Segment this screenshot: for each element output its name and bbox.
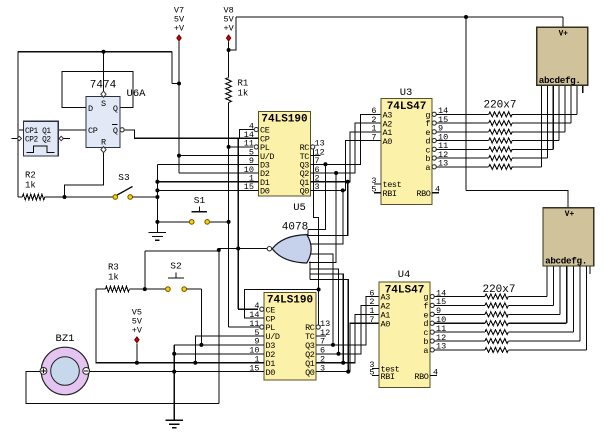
- node junction: [341, 361, 345, 365]
- svg-text:R2: R2: [25, 171, 36, 181]
- node junction: [227, 48, 231, 52]
- wire D3 row top counter: [157, 163, 258, 165]
- wire Q3 to U3 A3: [311, 114, 382, 164]
- wire Q1 to U3 A1: [311, 132, 382, 182]
- wire buzzer leg: [218, 251, 220, 404]
- wire S2 right leg: [200, 289, 202, 345]
- switch S1: [189, 195, 209, 224]
- svg-text:U4: U4: [398, 269, 411, 281]
- buzzer BZ1: [40, 333, 90, 395]
- power source V7 5V: [174, 6, 185, 41]
- wire U3 segment e via 220x7 to display1: [437, 85, 565, 134]
- wire V7 stem: [178, 42, 180, 174]
- node junction: [331, 343, 335, 347]
- node junction: [227, 220, 231, 224]
- wire: [229, 17, 236, 50]
- wire gate out to counters enable: [237, 138, 239, 309]
- svg-text:a: a: [423, 346, 428, 356]
- svg-text:+V: +V: [132, 325, 143, 335]
- wire U3 segment a via 220x7 to display1: [437, 85, 542, 169]
- resistor R3 1k: [105, 263, 129, 292]
- node junction: [63, 195, 67, 199]
- svg-text:Q0: Q0: [300, 187, 310, 197]
- svg-text:7474: 7474: [90, 80, 117, 92]
- svg-text:RBI: RBI: [383, 189, 397, 199]
- wire U4 segment c via 220x7 to display2: [435, 266, 573, 335]
- svg-text:abcdefg.: abcdefg.: [545, 256, 587, 267]
- wire U/D bottom from V5 rail: [195, 336, 264, 363]
- wire CE hook top counter: [239, 130, 254, 139]
- wire output to R3 node: [144, 251, 146, 289]
- display DS1 (top 7-segment): [537, 27, 588, 86]
- svg-text:+V: +V: [223, 24, 234, 34]
- wire PL row top counter: [229, 146, 253, 148]
- svg-text:R1: R1: [238, 79, 249, 89]
- svg-text:220x7: 220x7: [483, 100, 516, 112]
- wire V5 rail / D1 row: [96, 289, 264, 363]
- wire U4 segment d via 220x7 to display2: [435, 266, 567, 326]
- svg-text:D0: D0: [260, 187, 270, 197]
- svg-text:S1: S1: [194, 195, 206, 206]
- wire V5 stem: [136, 344, 138, 363]
- svg-text:CP: CP: [88, 126, 98, 136]
- wire: [187, 288, 202, 290]
- svg-text:4078: 4078: [282, 222, 308, 234]
- wire top +V rail: [236, 16, 563, 18]
- node junction: [346, 180, 350, 184]
- wire top RC to bottom CP loop: [313, 147, 318, 290]
- node junction: [199, 343, 203, 347]
- wire 7474 Qbar to counters CP: [124, 130, 258, 138]
- wire 4078 input 7 from bottom Q1: [310, 274, 343, 363]
- wire CP loop bottom counter: [244, 290, 318, 326]
- svg-text:+V: +V: [174, 24, 185, 34]
- wire clock to 7474 CP: [58, 129, 86, 131]
- switch S2: [166, 261, 187, 292]
- svg-text:V+: V+: [559, 31, 569, 39]
- wire: [17, 52, 19, 197]
- svg-text:BZ1: BZ1: [56, 333, 75, 345]
- svg-text:A0: A0: [383, 137, 393, 147]
- wire CE row bottom counter: [238, 308, 258, 310]
- wire R1 net vertical: [228, 103, 230, 328]
- counter U2 74LS190 (bottom): [249, 293, 330, 381]
- node junction: [155, 180, 159, 184]
- wire: [133, 196, 158, 198]
- wire 4078 output row: [219, 248, 267, 250]
- wire +V drop to display2: [465, 17, 467, 191]
- wire Q2 to U4 A2: [316, 305, 379, 353]
- decoder U3 74LS47: [371, 87, 448, 205]
- svg-text:CP1 Q1: CP1 Q1: [25, 128, 51, 136]
- node junction: [177, 154, 181, 158]
- svg-text:U5: U5: [293, 202, 306, 214]
- wire 7474 R drop: [65, 152, 104, 197]
- wire: [172, 83, 179, 85]
- svg-text:a: a: [425, 163, 430, 173]
- wire D0 row top counter: [157, 189, 258, 191]
- wire: [103, 52, 105, 94]
- wire D2 row top counter: [179, 172, 259, 174]
- wire U3 segment b via 220x7 to display1: [437, 85, 547, 160]
- wire 4078 input 4 from bottom Q3: [308, 254, 334, 345]
- wire U3 segment g via 220x7 to display1: [437, 85, 577, 117]
- wire Q0 to U4 A0: [316, 323, 379, 371]
- node junction: [227, 145, 231, 149]
- switch S3: [113, 172, 133, 199]
- counter U1 74LS190 (top): [244, 112, 325, 197]
- ground: [165, 420, 183, 428]
- wire: [171, 52, 173, 84]
- node junction: [155, 195, 159, 199]
- wire: [466, 191, 568, 208]
- svg-text:abcdefg.: abcdefg.: [539, 75, 581, 86]
- wire U4 segment b via 220x7 to display2: [435, 266, 580, 344]
- svg-text:1k: 1k: [108, 273, 119, 283]
- svg-text:13: 13: [436, 342, 446, 352]
- svg-text:U6A: U6A: [127, 88, 147, 100]
- wire S1 row: [157, 221, 189, 223]
- clock generator CP1/CP2: [12, 121, 71, 156]
- wire U4 segment e via 220x7 to display2: [435, 266, 560, 317]
- wire U4 segment g via 220x7 to display2: [435, 266, 547, 299]
- svg-text:V+: V+: [565, 211, 575, 219]
- wire Q0 to U3 A0: [311, 141, 382, 191]
- wire D0 row / buzzer minus: [90, 371, 265, 373]
- svg-text:7: 7: [369, 315, 374, 325]
- wire buzzer plus loop: [26, 372, 219, 404]
- wire 4078 input 5 from top Q2: [309, 173, 336, 263]
- svg-text:D: D: [88, 104, 93, 114]
- node junction: [193, 361, 197, 365]
- wire U4 segment a via 220x7 to display2: [435, 266, 587, 352]
- svg-text:1k: 1k: [238, 89, 249, 99]
- gate U5 4078 (8-input NOR): [267, 202, 311, 280]
- svg-text:S3: S3: [118, 172, 130, 183]
- wire R3 row: [96, 288, 106, 290]
- wire U3 segment d via 220x7 to display1: [437, 85, 559, 143]
- node junction: [102, 50, 106, 54]
- wire U/D row top counter: [179, 155, 259, 157]
- wire D1 row top counter: [157, 181, 258, 183]
- wire R2 row: [18, 196, 22, 198]
- svg-text:RBO: RBO: [414, 372, 428, 382]
- display DS2 (bottom 7-segment): [543, 208, 594, 267]
- wire U3 segment c via 220x7 to display1: [437, 85, 553, 152]
- wire 4078 input 2 from top Q1: [308, 182, 348, 236]
- svg-text:RBI: RBI: [381, 372, 395, 382]
- svg-text:Q: Q: [113, 126, 118, 136]
- wire Q3 to U4 A3: [316, 297, 379, 345]
- wire U3 segment f via 220x7 to display1: [437, 85, 571, 125]
- svg-text:S2: S2: [170, 261, 182, 272]
- wire display2 dp stub: [589, 266, 591, 274]
- wire display1 V+ drop: [562, 17, 564, 27]
- power source V8 5V: [223, 6, 234, 41]
- wire Q2 to U3 A2: [311, 123, 382, 173]
- wire 4078 input 1 from top Q3: [308, 164, 325, 229]
- svg-text:1k: 1k: [25, 181, 36, 191]
- svg-text:220x7: 220x7: [482, 284, 515, 296]
- svg-text:13: 13: [438, 159, 448, 169]
- svg-text:U3: U3: [400, 87, 413, 99]
- wire U4 segment f via 220x7 to display2: [435, 266, 554, 308]
- wire D3 row bottom counter: [174, 344, 264, 346]
- svg-text:D0: D0: [266, 368, 276, 378]
- wire display1 dp stub: [582, 85, 584, 93]
- resistor R2 1k: [22, 171, 44, 200]
- wire 4078 input 6 from bottom Q2: [310, 269, 339, 354]
- svg-text:Q0: Q0: [305, 368, 315, 378]
- wire: [18, 51, 172, 53]
- node junction: [155, 220, 159, 224]
- resistor network 220x7 (bottom): [482, 284, 515, 296]
- ground: [149, 232, 167, 240]
- node junction: [236, 247, 240, 251]
- svg-text:R: R: [101, 138, 106, 148]
- svg-text:RBO: RBO: [416, 189, 430, 199]
- decoder U4 74LS47: [369, 269, 446, 388]
- node junction: [172, 352, 176, 356]
- svg-text:A0: A0: [381, 319, 391, 329]
- wire left preset bus: [156, 164, 158, 232]
- resistor R1 1k: [226, 78, 249, 103]
- node junction: [334, 171, 338, 175]
- wire V8 stem: [228, 42, 230, 78]
- node junction: [341, 188, 345, 192]
- flip-flop U6A 7474: [76, 80, 146, 153]
- svg-text:S: S: [101, 99, 106, 109]
- node junction: [337, 352, 341, 356]
- wire PL row bottom counter: [229, 326, 261, 328]
- node junction: [323, 162, 327, 166]
- wire 7474 Q to D feedback: [62, 72, 133, 108]
- wire 4078 output row left: [145, 250, 219, 252]
- power source V5 5V: [132, 307, 143, 342]
- svg-text:74LS190: 74LS190: [261, 114, 307, 126]
- wire: [45, 196, 113, 198]
- wire D2 row bottom counter: [174, 353, 264, 355]
- node junction: [346, 370, 350, 374]
- svg-text:7: 7: [371, 132, 376, 142]
- svg-text:74LS47: 74LS47: [385, 285, 425, 297]
- svg-text:74LS47: 74LS47: [387, 101, 427, 113]
- wire 4078 input 3 from top Q0: [308, 190, 343, 244]
- node junction: [177, 82, 181, 86]
- svg-text:Q: Q: [113, 104, 118, 114]
- node junction: [317, 288, 321, 292]
- wire 4078 input 8 from bottom Q0: [310, 280, 348, 372]
- node junction: [172, 370, 176, 374]
- node junction: [464, 15, 468, 19]
- wire S1 to R1 net: [210, 221, 229, 223]
- wire Q1 to U4 A1: [316, 314, 379, 362]
- wire ground bus bottom: [173, 345, 175, 420]
- node junction: [143, 287, 147, 291]
- node junction: [135, 361, 139, 365]
- wire: [129, 288, 165, 290]
- node junction: [217, 248, 221, 252]
- wire 4078 output jog: [218, 249, 220, 251]
- node junction: [155, 188, 159, 192]
- resistor network 220x7 (top): [483, 100, 516, 112]
- svg-text:CP2 Q2: CP2 Q2: [25, 136, 51, 144]
- svg-text:R3: R3: [108, 263, 119, 273]
